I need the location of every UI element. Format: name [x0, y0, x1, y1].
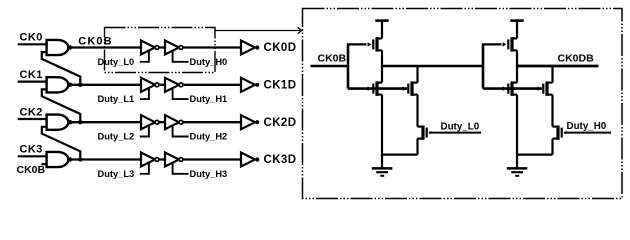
node gate2 output dot: [68, 120, 73, 125]
and-gate G1: [47, 77, 69, 92]
svg-text:Duty_H1: Duty_H1: [190, 94, 228, 104]
wire stage1 PMOS gate: [347, 43, 367, 45]
wire row2 main line: [68, 121, 241, 123]
transistor M5 PMOS stage2: [503, 37, 517, 51]
wire M5 drain to output node: [516, 50, 518, 66]
wire M6 drain to output node: [516, 66, 518, 83]
node CK0B (gate0 output dot): [68, 45, 73, 50]
wire Duty_H0 gate line: [564, 132, 611, 134]
wire CK0 input: [18, 43, 47, 45]
transistor M6 NMOS stage2: [503, 81, 517, 95]
junction row1: [78, 83, 82, 87]
wire M7 source to M8 drain: [551, 95, 553, 127]
svg-text:CK0: CK0: [20, 32, 43, 44]
tri-state inverter row1 L: [141, 78, 159, 92]
supply VDD stage2: [510, 21, 523, 39]
wire row1 main line: [68, 84, 241, 86]
svg-text:Duty_L1: Duty_L1: [98, 94, 135, 104]
wire Duty_H1 control: [173, 89, 189, 100]
wire stage1 ground connector: [382, 154, 418, 156]
wire stage2 NMOS common gate line: [483, 87, 542, 90]
wire stage2 PMOS gate: [482, 43, 502, 45]
wire M2 drain to output node: [381, 66, 383, 83]
svg-text:CK1D: CK1D: [264, 79, 297, 91]
wire CK3 input: [18, 155, 47, 157]
svg-text:CK2: CK2: [20, 106, 43, 118]
ground stage1: [372, 168, 393, 175]
tri-state inverter row0 L: [141, 41, 159, 55]
svg-text:Duty_L0: Duty_L0: [98, 57, 135, 67]
wire gate0 second input hook to row1 output node: [42, 52, 81, 85]
junction row2: [78, 120, 82, 124]
panel border: [303, 9, 623, 199]
svg-text:Duty_H3: Duty_H3: [190, 169, 228, 179]
ground stage2: [507, 168, 528, 175]
and-gate G3: [47, 152, 69, 167]
dashed selection box around row-0 duty inverters: [105, 28, 216, 73]
tri-state inverter row2 H: [165, 115, 183, 129]
wire Duty_L2 control: [140, 126, 149, 137]
wire stage1 NMOS common gate line: [348, 87, 407, 90]
svg-text:Duty_H0: Duty_H0: [190, 57, 228, 67]
svg-text:CK3D: CK3D: [264, 154, 297, 166]
wire CK1 input: [18, 80, 47, 82]
and-gate G2: [47, 115, 69, 130]
callout arrow to transistor schematic: [215, 27, 302, 33]
junction row3: [78, 157, 82, 161]
wire gate3 second input stub CK0B: [41, 163, 46, 165]
wire M6 source to ground: [516, 95, 518, 169]
and-gate G0: [47, 40, 69, 55]
wire M3 drain to output node: [416, 66, 418, 83]
tri-state inverter row2 L: [141, 115, 159, 129]
wire gate1 second input hook to row2 output node: [42, 89, 81, 122]
tri-state inverter row1 H: [165, 78, 183, 92]
transistor M2 NMOS stage1: [368, 81, 382, 95]
tri-state inverter row3 L: [141, 153, 159, 167]
svg-text:Duty_L2: Duty_L2: [98, 132, 135, 142]
wire Duty_L0 control: [140, 51, 149, 62]
wire CK0DB output line: [517, 65, 599, 68]
svg-text:CK0B: CK0B: [78, 35, 112, 47]
svg-text:CK0B: CK0B: [318, 53, 347, 65]
svg-text:CK0D: CK0D: [264, 42, 297, 54]
svg-text:CK0DB: CK0DB: [558, 52, 595, 64]
output inverter row3: [241, 153, 259, 167]
wire M3 source to M4 drain: [416, 95, 418, 127]
wire M8 source down: [551, 139, 553, 155]
transistor M7 NMOS duty stage2: [538, 81, 553, 95]
wire Duty_L3 control: [140, 163, 149, 174]
wire M2 source to ground: [381, 95, 383, 169]
wire Duty_H2 control: [173, 126, 189, 137]
wire row3 main line: [68, 158, 241, 160]
svg-text:CK1: CK1: [20, 69, 43, 81]
output inverter row2: [241, 115, 259, 129]
tri-state inverter row3 H: [165, 153, 183, 167]
tri-state inverter row0 H: [165, 41, 183, 55]
svg-text:CK3: CK3: [20, 144, 43, 156]
wire stage1 gate rail: [347, 44, 350, 88]
svg-text:Duty_H0: Duty_H0: [567, 121, 607, 132]
supply VDD stage1: [375, 21, 388, 39]
transistor M3 NMOS duty stage1: [403, 81, 418, 95]
wire CK0B input line: [311, 65, 349, 68]
svg-text:Duty_H2: Duty_H2: [190, 132, 228, 142]
svg-text:Duty_L0: Duty_L0: [441, 121, 480, 132]
wire stage2 gate rail: [482, 44, 485, 88]
svg-text:CK2D: CK2D: [264, 117, 297, 129]
wire stage2 ground connector: [517, 154, 553, 156]
wire Duty_H3 control: [173, 163, 189, 174]
wire Duty_L0 gate line: [429, 132, 481, 134]
svg-text:Duty_L3: Duty_L3: [98, 169, 135, 179]
svg-text:CK0B: CK0B: [17, 164, 46, 176]
wire Duty_L1 control: [140, 89, 149, 100]
wire M1 drain to output node: [381, 50, 383, 66]
wire row0 main line: [68, 46, 241, 48]
wire stage1 output node line: [382, 65, 483, 68]
wire Duty_H0 control: [173, 51, 189, 62]
output inverter row1: [241, 78, 259, 92]
transistor M8 NMOS footer stage2: [553, 125, 567, 139]
wire M4 source down: [416, 139, 418, 155]
transistor M4 NMOS footer stage1: [418, 125, 432, 139]
wire gate2 second input hook to row3 output node: [42, 127, 81, 160]
node gate1 output dot: [68, 83, 73, 88]
transistor M1 PMOS stage1: [368, 37, 382, 51]
output inverter row0: [241, 41, 259, 55]
wire CK2 input: [18, 118, 47, 120]
node gate3 output dot: [68, 157, 73, 162]
wire M7 drain to output node: [551, 66, 553, 83]
